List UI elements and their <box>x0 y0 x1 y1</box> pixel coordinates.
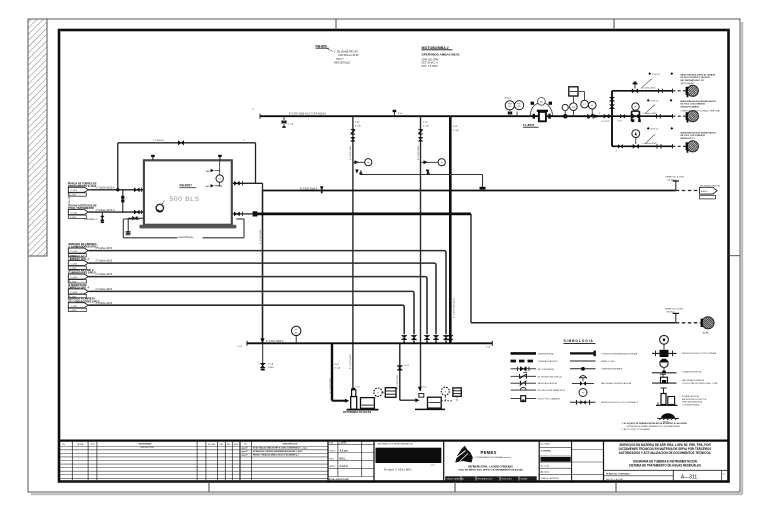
svg-text:VALVULA AUTORREGULADORA: VALVULA AUTORREGULADORA <box>601 382 632 385</box>
svg-text:UNIDAD: UNIDAD <box>521 478 529 481</box>
svg-text:TIPO Y: TIPO Y <box>336 58 344 61</box>
svg-text:INDICACION DE DIAMETROS: INDICACION DE DIAMETROS <box>538 389 566 392</box>
svg-text:SUBSTANCIAS AGUA: SUBSTANCIAS AGUA <box>682 401 703 404</box>
svg-text:CubetoTanque: CubetoTanque <box>179 236 195 239</box>
svg-text:4"-CatSer-8163: 4"-CatSer-8163 <box>643 142 658 145</box>
svg-text:2"-CatSer-8163: 2"-CatSer-8163 <box>96 273 113 276</box>
svg-text:DE 3 PLG. CON CONEXION: DE 3 PLG. CON CONEXION <box>681 104 706 106</box>
svg-text:TOMA DE MUESTRA: TOMA DE MUESTRA <box>682 371 702 374</box>
svg-text:6"-C.R.P.-8163-A-13: 6"-C.R.P.-8163-A-13 <box>453 297 456 318</box>
svg-text:8"x6"x4": 8"x6"x4" <box>651 101 659 103</box>
svg-text:4"-C.R.P.-8163: 4"-C.R.P.-8163 <box>418 145 420 160</box>
svg-text:4"-CA: 4"-CA <box>423 124 429 127</box>
svg-text:DESCRIPCION: DESCRIPCION <box>283 443 298 445</box>
svg-text:CONEXION RAPIDA P/LLENADO TE: CONEXION RAPIDA P/LLENADO TEMPORAL <box>681 110 721 113</box>
svg-text:L.MTZ.: L.MTZ. <box>340 442 348 444</box>
svg-text:POR: POR <box>90 444 95 446</box>
svg-text:MEDIDOR DE FLUJO TIPO TURBINA: MEDIDOR DE FLUJO TIPO TURBINA <box>682 352 717 355</box>
svg-text:SE REALIZO Y REVISO DIAGRAMA S: SE REALIZO Y REVISO DIAGRAMA SEGUN REC. … <box>253 450 303 453</box>
svg-text:CON FLOTADOR P/NIVEL MAX. Y MI: CON FLOTADOR P/NIVEL MAX. Y MIN. <box>682 382 718 385</box>
svg-text:VIGENTES DE PEMEX REFINACION Y: VIGENTES DE PEMEX REFINACION Y NORMATIVI… <box>627 425 681 428</box>
svg-text:DE 3 PLG. CON CONEXION: DE 3 PLG. CON CONEXION <box>681 135 706 137</box>
svg-text:FECHA: FECHA <box>77 443 84 446</box>
svg-text:p.em: p.em <box>431 465 435 467</box>
svg-text:4"-C.R.P.-8163: 4"-C.R.P.-8163 <box>397 374 399 389</box>
svg-text:6"-CA: 6"-CA <box>453 129 459 132</box>
svg-text:C-1416: C-1416 <box>70 190 78 192</box>
svg-text:SE ACTUALIZO DIBUJO REF. A COM: SE ACTUALIZO DIBUJO REF. A COMO CONSTRUI… <box>253 446 308 449</box>
svg-text:FECHA: FECHA <box>208 443 215 446</box>
svg-text:DIB.: DIB. <box>219 444 223 446</box>
svg-text:VA. COMPUERTA: VA. COMPUERTA <box>538 368 555 371</box>
svg-text:No. GRAL.: No. GRAL. <box>541 443 551 446</box>
svg-text:HOJA 1 DE 1: HOJA 1 DE 1 <box>502 478 513 481</box>
svg-text:4"-CA: 4"-CA <box>335 367 341 370</box>
svg-text:2"-CA: 2"-CA <box>268 363 274 366</box>
svg-text:Por aprob. S. DE Inj. MEXI: Por aprob. S. DE Inj. MEXI <box>384 469 412 472</box>
svg-text:MANGUERA DE HULE DESPACHADOR: MANGUERA DE HULE DESPACHADOR <box>681 131 717 134</box>
svg-text:1. EL EQUIPO SE DEBERA INSTAL: 1. EL EQUIPO SE DEBERA INSTALAR DE ACUER… <box>622 422 687 425</box>
svg-text:3"x2": 3"x2" <box>356 387 361 389</box>
svg-text:CONEXION TIERRA AISLACION BRID: CONEXION TIERRA AISLACION BRIDA <box>601 352 638 355</box>
svg-text:2": 2" <box>244 140 246 142</box>
svg-text:RAPIDA P/LLENADO: RAPIDA P/LLENADO <box>681 105 700 108</box>
svg-text:4"-CatSer-8163: 4"-CatSer-8163 <box>642 87 657 90</box>
svg-text:CONTRAINCENDIO: CONTRAINCENDIO <box>682 403 701 406</box>
svg-text:PLANO No. 6T620000Z: PLANO No. 6T620000Z <box>606 472 630 475</box>
svg-text:RF 150# CON NIPLE Y VALVULA: RF 150# CON NIPLE Y VALVULA <box>681 76 711 79</box>
svg-text:VER DETALLE: VER DETALLE <box>334 62 350 65</box>
svg-text:A—311: A—311 <box>681 475 698 481</box>
svg-text:2"-CatSer-8163: 2"-CatSer-8163 <box>96 302 113 305</box>
svg-text:APR.: APR. <box>234 443 239 446</box>
svg-text:ASPERSORA JOCKEY DE: ASPERSORA JOCKEY DE <box>682 398 707 401</box>
svg-text:A M-14: A M-14 <box>701 190 708 193</box>
svg-text:C-1416: C-1416 <box>70 251 78 253</box>
svg-text:No. S.G.L.: No. S.G.L. <box>541 466 551 468</box>
svg-text:TUBERIA ENTERRADA: TUBERIA ENTERRADA <box>601 368 623 371</box>
svg-text:PE REFINACION & FIRMA petro: PE REFINACION & FIRMA petrolera <box>476 456 512 459</box>
svg-text:APRO.: APRO. <box>330 465 337 468</box>
svg-text:2"-CA-8163: 2"-CA-8163 <box>153 139 165 142</box>
svg-text:6"x4": 6"x4" <box>486 347 491 349</box>
svg-text:C-1416: C-1416 <box>70 213 78 215</box>
svg-text:DE M-14: DE M-14 <box>668 179 677 181</box>
svg-text:APROBADO POR PEMEX REFINACION: APROBADO POR PEMEX REFINACION <box>378 443 413 446</box>
svg-text:PROY.: PROY. <box>330 450 337 452</box>
svg-text:3"x2": 3"x2" <box>423 387 428 389</box>
svg-text:FB-8007: FB-8007 <box>180 184 193 188</box>
svg-text:6"-C.R.P.-8163-A: 6"-C.R.P.-8163-A <box>266 340 284 343</box>
svg-text:6"x4": 6"x4" <box>618 121 623 123</box>
svg-text:Ao.-G.-6.: Ao.-G.-6. <box>541 471 550 474</box>
svg-text:DREN: DREN <box>268 367 274 369</box>
svg-text:MEDIDOR DE FLUJO TIPO TURBINA-: MEDIDOR DE FLUJO TIPO TURBINA-TY <box>601 401 639 404</box>
svg-text:4"-C.R.P.-8163: 4"-C.R.P.-8163 <box>330 378 332 393</box>
svg-text:MOTOBOMBA BA-800 R/3: MOTOBOMBA BA-800 R/3 <box>343 411 372 414</box>
svg-text:MANGUERA DE HULE DESPACHADOR: MANGUERA DE HULE DESPACHADOR <box>681 100 717 103</box>
svg-text:DE COMPUERTA DE 1 1/2": DE COMPUERTA DE 1 1/2" <box>681 79 705 82</box>
svg-text:DIB.: DIB. <box>330 442 334 444</box>
svg-text:C-1416: C-1416 <box>70 292 78 294</box>
svg-text:No.: No. <box>63 444 66 446</box>
svg-text:4": 4" <box>253 109 255 111</box>
svg-text:REVISIONES: REVISIONES <box>139 443 152 445</box>
svg-text:REV.: REV. <box>330 458 335 460</box>
svg-text:FL-8007: FL-8007 <box>523 123 535 127</box>
svg-text:MOTOBOMBA 2: MOTOBOMBA 2 <box>422 46 449 50</box>
svg-text:C-1416: C-1416 <box>70 277 78 279</box>
svg-text:2"-CatSer-8163: 2"-CatSer-8163 <box>96 260 113 263</box>
svg-text:RAPIDA P/ P.C.I.: RAPIDA P/ P.C.I. <box>681 137 696 140</box>
svg-text:8"x6"x4": 8"x6"x4" <box>652 74 660 76</box>
svg-text:AUTORIZADOS Y ACTUALIZACION DE: AUTORIZADOS Y ACTUALIZACION DE DOCUMENTO… <box>619 451 712 455</box>
svg-text:8"x6"x4": 8"x6"x4" <box>651 129 659 131</box>
svg-text:6"x4": 6"x4" <box>423 122 428 124</box>
svg-text:2"-CatSer-8163: 2"-CatSer-8163 <box>96 247 113 250</box>
svg-text:2. ACOT. EN M. Y PULGADAS: 2. ACOT. EN M. Y PULGADAS <box>622 428 651 431</box>
svg-text:4"-CA: 4"-CA <box>355 124 361 127</box>
svg-text:A.v.G.A.: A.v.G.A. <box>340 465 349 468</box>
svg-text:4"-C.R.P.-8163: 4"-C.R.P.-8163 <box>350 145 352 160</box>
svg-text:DE M-14: DE M-14 <box>667 312 676 314</box>
svg-text:VIENE LIN. 6"-8163: VIENE LIN. 6"-8163 <box>665 309 684 311</box>
svg-text:1"-CA: 1"-CA <box>288 123 294 126</box>
svg-text:FECHA AGO-2007: FECHA AGO-2007 <box>478 478 493 481</box>
svg-text:800: 800 <box>508 106 511 108</box>
svg-text:1" DE DIAMETRO INT.: 1" DE DIAMETRO INT. <box>334 51 359 54</box>
svg-text:POT. 7.5 HP/5: POT. 7.5 HP/5 <box>422 65 439 68</box>
svg-text:PEMEX: PEMEX <box>481 450 497 455</box>
svg-text:A.S.ard: A.S.ard <box>340 449 349 452</box>
svg-text:C-1416: C-1416 <box>70 306 78 308</box>
svg-text:VIENE LIN. 8"-8163: VIENE LIN. 8"-8163 <box>666 176 685 178</box>
svg-text:SE INTERCONECTA: SE INTERCONECTA <box>700 185 720 188</box>
svg-text:6"x4": 6"x4" <box>355 122 360 124</box>
svg-text:2-4163: 2-4163 <box>70 217 77 219</box>
svg-text:2-4163: 2-4163 <box>70 310 77 312</box>
svg-text:8"-C.R.P.-8163-A-13" C-R.P.-: 8"-C.R.P.-8163-A-13" C-R.P.-8163-A <box>289 113 327 116</box>
svg-text:FB-800: FB-800 <box>316 44 327 48</box>
svg-text:TAPON MACHO: TAPON MACHO <box>681 82 695 85</box>
svg-text:8"-C.R.P.-8163-A: 8"-C.R.P.-8163-A <box>300 188 318 191</box>
svg-text:M.G.L.: M.G.L. <box>340 458 347 460</box>
svg-text:C-1416: C-1416 <box>70 264 78 266</box>
svg-text:ago-07: ago-07 <box>242 451 248 453</box>
svg-text:TUBERIA EXISTENTE: TUBERIA EXISTENTE <box>538 360 559 363</box>
svg-text:BOMBA VERTICAL: BOMBA VERTICAL <box>682 395 700 398</box>
svg-text:ago-07: ago-07 <box>242 447 248 449</box>
svg-text:CON MALLA 30-60: CON MALLA 30-60 <box>338 54 359 57</box>
svg-text:2"-CatSer-8163: 2"-CatSer-8163 <box>96 288 113 291</box>
svg-text:GCIA. DE SERVS. AUX. DEPTO. DE: GCIA. DE SERVS. AUX. DEPTO. DE TRATAMIEN… <box>458 469 523 472</box>
svg-text:6": 6" <box>599 113 601 115</box>
svg-text:ago-07: ago-07 <box>242 454 248 456</box>
svg-text:VALVULA DE AGUJA: VALVULA DE AGUJA <box>538 382 558 385</box>
svg-text:No.: No. <box>244 443 247 445</box>
svg-text:6"-C.R.P.: 6"-C.R.P. <box>602 121 611 123</box>
svg-text:SEÑAL LOCAL: SEÑAL LOCAL <box>601 360 615 363</box>
svg-text:2-4163: 2-4163 <box>70 195 77 197</box>
svg-text:4"x3": 4"x3" <box>335 364 340 366</box>
svg-text:500 BLS: 500 BLS <box>170 196 200 203</box>
svg-text:FECHA: AGOSTO/2007: FECHA: AGOSTO/2007 <box>328 478 351 481</box>
svg-text:REVISO Y REALIZO DIBUJO SE ACT: REVISO Y REALIZO DIBUJO SE ACT. DICTAMEN… <box>253 453 299 456</box>
svg-text:REFINERIA GRAL. LAZARO CARDENA: REFINERIA GRAL. LAZARO CARDENAS <box>468 466 513 469</box>
svg-text:ING.: ING. <box>227 444 231 446</box>
svg-text:PLANO No. ANTERIOR: PLANO No. ANTERIOR <box>541 477 560 480</box>
svg-text:800: 800 <box>518 106 521 108</box>
svg-text:6"x4": 6"x4" <box>453 126 458 128</box>
svg-text:4"-C.R.P.-8163: 4"-C.R.P.-8163 <box>350 354 352 369</box>
svg-text:PDI: PDI <box>540 101 544 103</box>
svg-text:6"x4": 6"x4" <box>238 346 243 348</box>
svg-text:OPERANDO AMBAS B8AS.: OPERANDO AMBAS B8AS. <box>422 52 461 56</box>
svg-text:REV. No. 1 A-G-DIB: REV. No. 1 A-G-DIB <box>606 478 624 481</box>
svg-text:VA. RETENCION (CHECK): VA. RETENCION (CHECK) <box>538 375 563 378</box>
svg-text:FQI: FQI <box>572 107 576 109</box>
svg-text:8"x6": 8"x6" <box>398 113 403 115</box>
svg-text:FILTRO TIPO CANASTA: FILTRO TIPO CANASTA <box>538 398 561 401</box>
svg-text:800: 800 <box>295 332 298 334</box>
svg-text:BRIDA CIEGA DE ACERO AL CARBON: BRIDA CIEGA DE ACERO AL CARBON <box>681 73 716 76</box>
svg-text:4"x3": 4"x3" <box>405 365 410 367</box>
svg-text:DIBUJO CATASTRAL: DIBUJO CATASTRAL <box>447 478 464 481</box>
svg-text:S I M B O L O G I A: S I M B O L O G I A <box>564 339 594 343</box>
svg-text:VALVULA AUTOMATICA: VALVULA AUTOMATICA <box>682 379 705 382</box>
svg-text:6"-C.R.P.-8163: 6"-C.R.P.-8163 <box>260 229 262 244</box>
svg-text:DESCRIPCION: DESCRIPCION <box>140 447 154 449</box>
svg-text:TUBERIA NUEVA: TUBERIA NUEVA <box>538 352 555 355</box>
svg-text:4"-CatSer-8163: 4"-CatSer-8163 <box>643 112 658 115</box>
svg-text:SISTEMA DE TRATAMIENTO DE AGUA: SISTEMA DE TRATAMIENTO DE AGUAS RESIDUAL… <box>629 463 701 467</box>
svg-text:Rangos: Rangos <box>505 98 512 100</box>
svg-text:S-T.F.RFAL: S-T.F.RFAL <box>541 449 552 452</box>
svg-text:N. PL.: N. PL. <box>703 333 710 335</box>
svg-text:4": 4" <box>616 151 618 153</box>
